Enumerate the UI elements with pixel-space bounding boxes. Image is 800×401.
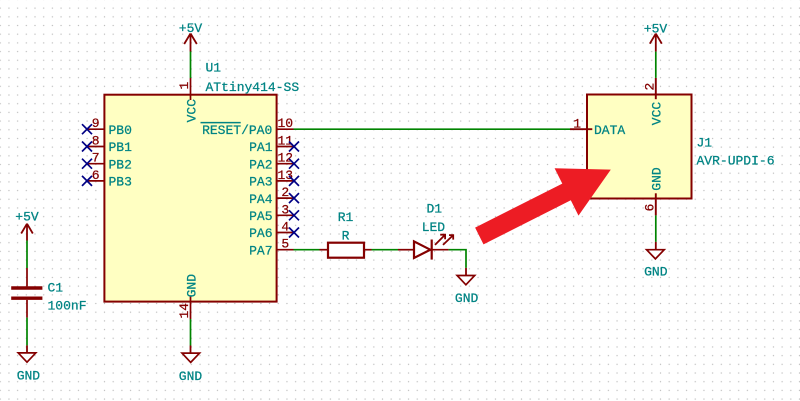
svg-text:GND: GND: [185, 274, 200, 298]
svg-text:RESET/PA0: RESET/PA0: [202, 123, 272, 138]
ground below J1: [644, 242, 668, 280]
ground below D1: [455, 268, 479, 306]
capacitor C1 100nF: [11, 268, 86, 318]
wire J1 pin 6 to ground: [655, 215, 657, 242]
svg-text:1: 1: [177, 82, 192, 90]
resistor R1: [320, 210, 372, 258]
svg-text:GND: GND: [455, 291, 479, 306]
svg-text:DATA: DATA: [594, 123, 625, 138]
U1 pin lines (pins 9,8,7,6 left; 10,11,12,13,2,3,4,5 right; 1 top; 14 bottom): [87, 78, 294, 319]
svg-text:PA1: PA1: [249, 140, 273, 155]
svg-text:5: 5: [281, 237, 289, 252]
svg-text:PB1: PB1: [109, 140, 133, 155]
svg-text:GND: GND: [17, 369, 41, 384]
svg-text:100nF: 100nF: [48, 299, 87, 314]
wire C1 to ground: [26, 318, 28, 346]
svg-text:GND: GND: [649, 167, 664, 191]
svg-text:PA5: PA5: [249, 209, 272, 224]
svg-text:6: 6: [92, 168, 100, 183]
no-connect X on PA3: [289, 176, 299, 186]
svg-text:PA4: PA4: [249, 192, 273, 207]
svg-text:PA3: PA3: [249, 175, 272, 190]
svg-text:GND: GND: [644, 265, 668, 280]
svg-text:LED: LED: [422, 220, 446, 235]
no-connect X on PB1: [82, 142, 92, 152]
svg-text:PA7: PA7: [249, 243, 272, 258]
svg-text:13: 13: [277, 168, 293, 183]
svg-text:8: 8: [92, 134, 100, 149]
U1 body: [104, 95, 276, 302]
wire +5V to J1 pin 2: [655, 52, 657, 78]
no-connect X on PB3: [82, 176, 92, 186]
svg-text:PA6: PA6: [249, 226, 272, 241]
connector J1 AVR-UPDI-6: [570, 78, 775, 216]
svg-text:D1: D1: [426, 201, 442, 216]
annotation red arrow pointing at J1: [475, 168, 611, 244]
svg-text:2: 2: [643, 83, 658, 91]
svg-text:11: 11: [277, 134, 293, 149]
svg-text:PB2: PB2: [109, 157, 132, 172]
svg-text:3: 3: [281, 202, 289, 217]
svg-text:AVR-UPDI-6: AVR-UPDI-6: [697, 154, 775, 169]
svg-text:1: 1: [573, 116, 581, 131]
no-connect X on PA6: [289, 228, 299, 238]
svg-text:C1: C1: [48, 280, 64, 295]
svg-text:J1: J1: [697, 136, 713, 151]
wire +5V to U1 pin 1: [190, 52, 192, 79]
wire U1 PA0 to J1 DATA: [294, 128, 571, 130]
no-connect X on PB2: [82, 159, 92, 169]
svg-text:VCC: VCC: [649, 102, 664, 126]
LED D1: [398, 201, 453, 259]
svg-text:PA2: PA2: [249, 157, 272, 172]
svg-text:10: 10: [277, 116, 293, 131]
no-connect X on PA2: [289, 159, 299, 169]
svg-text:PB3: PB3: [109, 175, 132, 190]
power +5V above J1 pin 2: [644, 22, 668, 52]
wire D1 to ground: [449, 250, 466, 268]
wire +5V to C1: [26, 241, 28, 269]
power +5V above U1 pin 1: [179, 21, 203, 52]
wire R1 to D1: [372, 249, 399, 251]
svg-text:9: 9: [92, 116, 100, 131]
wire U1 pin 14 to ground: [190, 319, 192, 346]
svg-text:GND: GND: [179, 369, 203, 384]
J1 body: [587, 95, 692, 199]
ground below C1: [17, 345, 41, 383]
svg-text:+5V: +5V: [15, 210, 39, 225]
svg-text:R: R: [342, 228, 350, 243]
no-connect X on PA5: [289, 210, 299, 220]
power +5V above C1: [15, 210, 39, 241]
svg-text:12: 12: [277, 151, 293, 166]
svg-text:U1: U1: [206, 61, 222, 76]
no-connect X on PA4: [289, 193, 299, 203]
no-connect X on PB0: [82, 124, 92, 134]
svg-text:4: 4: [281, 220, 289, 235]
wire U1 PA7 to R1: [294, 249, 320, 251]
svg-text:PB0: PB0: [109, 123, 132, 138]
svg-text:14: 14: [177, 303, 192, 319]
svg-text:7: 7: [92, 151, 100, 166]
J1 pin lines (1 left, 2 top, 6 bottom): [570, 128, 592, 130]
no-connect X on PA1: [289, 142, 299, 152]
IC U1 ATtiny414-SS: [87, 61, 299, 320]
ground below U1: [179, 346, 203, 384]
svg-text:VCC: VCC: [185, 99, 200, 123]
svg-text:6: 6: [643, 204, 658, 212]
svg-text:ATtiny414-SS: ATtiny414-SS: [206, 80, 300, 95]
svg-text:2: 2: [281, 185, 289, 200]
svg-text:R1: R1: [338, 210, 354, 225]
